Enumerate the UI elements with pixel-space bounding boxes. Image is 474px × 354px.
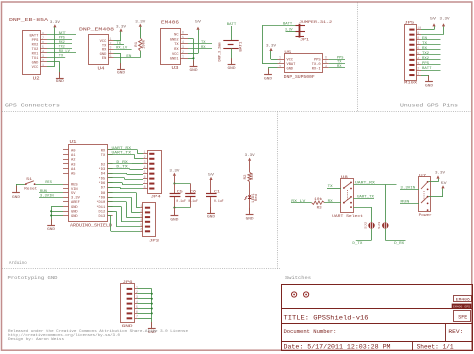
svg-text:Arduino: Arduino xyxy=(9,260,27,266)
svg-text:3.3V: 3.3V xyxy=(116,25,127,29)
svg-text:U8: U8 xyxy=(341,176,349,180)
resistor R3 10k xyxy=(312,197,325,211)
svg-text:0.1uF: 0.1uF xyxy=(188,199,198,203)
svg-text:8: 8 xyxy=(417,36,419,40)
svg-text:RUN: RUN xyxy=(40,190,47,194)
svg-text:VBAT: VBAT xyxy=(287,63,297,67)
JP6 pin stubs and pin numbers xyxy=(135,285,138,318)
svg-text:PPS: PPS xyxy=(422,62,429,66)
svg-text:*D9: *D9 xyxy=(99,196,106,201)
svg-text:GND: GND xyxy=(246,216,254,220)
mounting hole symbol 1 xyxy=(292,292,297,297)
wire U1 D5 to JP4 pin 6 xyxy=(108,178,143,180)
wire U7 to 3.3V supply xyxy=(429,179,439,182)
wire S1 to ground xyxy=(16,184,25,191)
svg-text:*D6: *D6 xyxy=(99,181,106,186)
svg-text:3: 3 xyxy=(417,61,419,65)
wire RX2 from JP5 pin 4 xyxy=(421,57,441,61)
svg-text:D_RX: D_RX xyxy=(116,161,128,165)
wire D_TX from U1 D3 to JP4 pin 4 xyxy=(108,166,143,170)
section label Prototyping GND xyxy=(8,275,58,281)
svg-text:GND: GND xyxy=(228,66,236,70)
wire RUN into U7 xyxy=(400,201,419,205)
svg-text:330: 330 xyxy=(251,173,255,180)
wire TX from U5 xyxy=(329,61,345,65)
license text xyxy=(8,329,189,342)
svg-text:Switches: Switches xyxy=(285,275,311,281)
svg-text:1: 1 xyxy=(182,55,184,59)
svg-text:7: 7 xyxy=(144,180,146,184)
svg-text:GND: GND xyxy=(71,206,78,210)
svg-text:RES: RES xyxy=(45,181,52,185)
ground below U2 xyxy=(56,72,64,83)
wire U5 GND to ground xyxy=(268,68,278,75)
svg-text:RX2: RX2 xyxy=(32,43,39,47)
svg-text:DNP_EB-85A: DNP_EB-85A xyxy=(9,19,49,23)
svg-text:8: 8 xyxy=(42,31,44,35)
U5 pin stubs and pin numbers xyxy=(278,56,329,69)
wire PPS from U2 pin 7 xyxy=(47,37,72,41)
wire 3.3VIN into U7 xyxy=(400,186,419,190)
svg-text:5V: 5V xyxy=(71,192,76,196)
wire 3.3V net label at JP1 pin 2 xyxy=(285,28,296,32)
svg-text:TX: TX xyxy=(101,154,106,158)
svg-text:BAT1: BAT1 xyxy=(240,42,244,52)
svg-text:*D11: *D11 xyxy=(96,205,106,210)
JP3 pin stubs and pin numbers xyxy=(140,204,143,232)
wire U1 D8 to JP3 pin 1 xyxy=(108,193,141,208)
svg-text:6: 6 xyxy=(182,30,184,34)
svg-text:D4: D4 xyxy=(101,173,106,177)
svg-text:GND: GND xyxy=(117,71,125,75)
wire U7 to 5V supply xyxy=(429,188,444,196)
svg-text:DNP_3.2mm: DNP_3.2mm xyxy=(218,43,222,62)
svg-text:NC: NC xyxy=(174,33,179,37)
3.3V supply at C5/C6 xyxy=(169,169,180,183)
svg-text:TX1: TX1 xyxy=(32,57,39,61)
svg-text:GND1: GND1 xyxy=(170,58,180,62)
svg-text:TX2: TX2 xyxy=(422,52,429,56)
header JP5 (unused GPS pins, M10X) xyxy=(404,21,418,85)
svg-text:JP3: JP3 xyxy=(149,240,160,244)
svg-text:Sheet: 1/1: Sheet: 1/1 xyxy=(417,344,454,351)
ground below battery xyxy=(228,58,236,70)
svg-text:C5: C5 xyxy=(177,191,183,195)
svg-text:U2: U2 xyxy=(33,77,41,81)
svg-text:U1: U1 xyxy=(70,141,78,145)
svg-text:BATT: BATT xyxy=(227,23,237,27)
wire C1 to ground xyxy=(210,197,212,213)
svg-text:U4: U4 xyxy=(98,67,106,71)
wire RX2 from U2 pin 6 xyxy=(47,41,72,45)
3.3V supply at U2 VCC xyxy=(47,21,61,66)
svg-text:Design by: Aaron Weiss: Design by: Aaron Weiss xyxy=(8,337,64,342)
svg-text:TX2: TX2 xyxy=(59,46,65,50)
5V supply at JP5 xyxy=(430,18,437,27)
svg-text:AREF: AREF xyxy=(71,201,80,205)
svg-text:D_TX: D_TX xyxy=(352,242,363,246)
svg-text:1: 1 xyxy=(144,150,146,154)
header JP6 (prototyping GND) xyxy=(121,281,135,329)
svg-text:GND: GND xyxy=(190,68,198,72)
wire JP5 pin 10 to 5V xyxy=(421,26,435,29)
GPS connector U2 (DNP_EB-85A) xyxy=(9,19,49,81)
5V supply at U7 xyxy=(441,182,448,188)
wire JP5 pin 9 to 3.3V xyxy=(421,26,444,34)
svg-text:5: 5 xyxy=(325,60,327,64)
svg-text:DNP_EM408: DNP_EM408 xyxy=(79,28,115,32)
svg-text:A5: A5 xyxy=(71,173,75,177)
svg-text:Power: Power xyxy=(419,213,433,218)
svg-text:100k: 100k xyxy=(142,40,147,49)
svg-text:U7: U7 xyxy=(419,174,427,178)
wire RX_LV from U4 xyxy=(114,46,132,50)
capacitor C6 0.1uF xyxy=(185,191,198,203)
wire TX from U4 xyxy=(114,42,125,46)
wire 3.3V to C5 and C6 tops xyxy=(173,183,190,194)
sheet text xyxy=(417,344,454,351)
svg-text:A4: A4 xyxy=(71,168,76,172)
svg-text:EN: EN xyxy=(422,37,427,41)
ground below JP5 xyxy=(425,76,433,88)
date text xyxy=(284,344,391,351)
svg-text:GND: GND xyxy=(122,325,134,329)
section boundary GPS Connectors / Unused GPS Pins (dotted) xyxy=(357,3,359,112)
svg-text:2: 2 xyxy=(182,50,184,54)
svg-text:GND: GND xyxy=(264,76,272,80)
svg-text:*D3: *D3 xyxy=(99,167,106,172)
GPS connector U4 (DNP_EM408) xyxy=(79,28,115,71)
section label GPS Connectors xyxy=(5,103,60,109)
svg-text:4: 4 xyxy=(182,40,184,44)
svg-text:3: 3 xyxy=(279,64,281,68)
3.3V supply at U4 VCC xyxy=(114,25,127,40)
U3 pin stubs and pin numbers xyxy=(180,30,188,58)
svg-text:5: 5 xyxy=(110,54,112,58)
svg-text:5: 5 xyxy=(144,170,146,174)
svg-text:EN: EN xyxy=(126,55,131,59)
svg-text:*D5: *D5 xyxy=(99,176,106,181)
JP5 pin stubs and pin numbers xyxy=(416,26,421,76)
svg-text:BATT: BATT xyxy=(59,32,67,36)
svg-text:3: 3 xyxy=(182,45,184,49)
solder jumper SJ1 xyxy=(378,222,388,229)
wire EN from U4 to R1 xyxy=(114,51,141,59)
wire RX from JP5 pin 6 xyxy=(421,47,441,51)
header JP4 xyxy=(148,151,162,200)
svg-text:RX2: RX2 xyxy=(422,57,429,61)
svg-text:8: 8 xyxy=(144,185,146,189)
wire BATT to JP1 pin 1 and U5 VBAT xyxy=(262,22,296,63)
U2 pin stubs and pin numbers xyxy=(40,31,47,67)
solder jumper SJ2 xyxy=(364,222,374,229)
svg-text:4: 4 xyxy=(140,218,142,222)
logo box SFE xyxy=(454,311,471,322)
svg-text:GND: GND xyxy=(47,227,55,231)
svg-text:JUMPER-31-2: JUMPER-31-2 xyxy=(299,21,333,25)
wire U1 D10 to JP3 pin 3 xyxy=(108,202,141,218)
header JP3 xyxy=(143,203,160,244)
svg-text:D8: D8 xyxy=(101,192,105,196)
5V supply at C1 xyxy=(208,174,215,194)
capacitor C5 0.1uF xyxy=(170,191,186,203)
svg-text:D7: D7 xyxy=(101,187,105,191)
svg-text:2: 2 xyxy=(279,60,281,64)
svg-text:Prototyping GND: Prototyping GND xyxy=(8,275,58,281)
ground at S1 xyxy=(12,186,20,199)
svg-text:EM406: EM406 xyxy=(161,21,180,25)
svg-text:UART_TX: UART_TX xyxy=(112,151,133,155)
svg-text:0.1uF: 0.1uF xyxy=(214,199,224,203)
svg-text:C6: C6 xyxy=(190,191,196,195)
svg-text:2: 2 xyxy=(144,155,146,159)
svg-text:*D10: *D10 xyxy=(96,200,105,205)
svg-text:6: 6 xyxy=(144,175,146,179)
svg-text:2: 2 xyxy=(417,66,419,70)
GPS connector U3 (EM406) xyxy=(161,21,181,71)
switch U7 (Power) xyxy=(419,174,433,218)
svg-text:EN: EN xyxy=(102,57,106,61)
ground below LED1 xyxy=(246,208,254,221)
svg-text:A2: A2 xyxy=(71,159,75,163)
wire TX from U2 pin 3 xyxy=(47,55,65,59)
svg-text:RUN: RUN xyxy=(400,201,409,205)
svg-text:RX2: RX2 xyxy=(59,41,65,45)
svg-text:9: 9 xyxy=(417,31,419,35)
Arduino shield U1 (ARDUINO_SHIELD) xyxy=(69,141,113,229)
wire R2 to LED1 xyxy=(249,182,251,195)
svg-text:3.3V: 3.3V xyxy=(266,44,277,48)
wire C5/C6 bottoms to ground xyxy=(173,197,190,215)
wire RX from U5 xyxy=(329,65,345,69)
svg-text:ARDUINO_SHIELD: ARDUINO_SHIELD xyxy=(70,225,113,229)
wire TX into U8 xyxy=(327,185,341,189)
svg-text:EM406 GPS: EM406 GPS xyxy=(453,305,470,308)
logo box EM406 GPS (filled) xyxy=(452,304,472,309)
svg-text:UART Select: UART Select xyxy=(332,214,363,219)
svg-text:A3: A3 xyxy=(71,163,75,167)
svg-text:BATT: BATT xyxy=(29,34,39,38)
ground below C1 xyxy=(207,207,215,219)
svg-text:VCC: VCC xyxy=(172,53,179,57)
wire UART_RX from U8 to SJ1 xyxy=(354,182,397,223)
svg-text:3.3V: 3.3V xyxy=(71,197,81,201)
svg-text:D2: D2 xyxy=(101,163,105,167)
svg-text:GND: GND xyxy=(170,217,178,221)
wire U1 D4 to JP4 pin 5 xyxy=(108,173,143,174)
svg-text:7: 7 xyxy=(42,36,44,40)
svg-text:4: 4 xyxy=(144,165,146,169)
ground below JP6 bus xyxy=(148,322,156,334)
svg-text:GND: GND xyxy=(71,215,78,219)
svg-text:RES: RES xyxy=(71,184,78,188)
svg-text:JP1: JP1 xyxy=(300,39,310,43)
wire battery to ground xyxy=(231,48,233,64)
svg-text:Reset: Reset xyxy=(24,188,37,192)
wire TX from U3 xyxy=(188,41,212,45)
wire LED1 to ground xyxy=(249,199,251,213)
svg-text:5V: 5V xyxy=(441,182,448,186)
svg-text:6: 6 xyxy=(417,46,419,50)
svg-text:GND2: GND2 xyxy=(170,38,179,42)
svg-text:U3: U3 xyxy=(172,67,180,71)
svg-text:TX2: TX2 xyxy=(32,48,39,52)
svg-text:6: 6 xyxy=(140,228,142,232)
svg-text:RX: RX xyxy=(101,149,106,153)
svg-text:Document Number:: Document Number: xyxy=(284,329,337,335)
svg-text:D_RX: D_RX xyxy=(394,242,405,246)
svg-text:GND: GND xyxy=(287,67,294,71)
svg-text:7: 7 xyxy=(417,41,419,45)
svg-text:A0: A0 xyxy=(71,149,75,153)
svg-text:R1: R1 xyxy=(135,42,139,47)
wire TX2 from JP5 pin 5 xyxy=(421,52,441,56)
resistor R2 330 xyxy=(244,172,255,182)
svg-text:3.3V: 3.3V xyxy=(50,21,61,25)
svg-text:3.3V: 3.3V xyxy=(245,154,256,158)
svg-text:U5: U5 xyxy=(284,51,292,55)
svg-text:3.3V: 3.3V xyxy=(435,171,446,175)
wire UART_TX from U8 xyxy=(354,196,375,200)
wire JP5 pin 1 to ground xyxy=(421,75,429,81)
svg-text:JP6: JP6 xyxy=(123,281,134,285)
wire RX from U3 xyxy=(188,46,212,50)
wire BATT to battery xyxy=(227,23,237,40)
svg-text:3: 3 xyxy=(140,214,142,218)
JP4 pin stubs and pin numbers xyxy=(143,150,148,189)
wire U2 GND to ground xyxy=(47,62,60,78)
section label Unused GPS Pins xyxy=(400,103,458,109)
wire BATT from JP5 pin 2 xyxy=(421,67,441,71)
wire PPS from U5 xyxy=(329,57,345,61)
svg-text:RX_LV: RX_LV xyxy=(291,200,306,204)
svg-text:GND: GND xyxy=(56,79,64,83)
wire U1 D13 to JP3 pin 6 xyxy=(108,216,141,232)
svg-text:4: 4 xyxy=(42,49,44,53)
svg-text:5: 5 xyxy=(417,51,419,55)
svg-text:1: 1 xyxy=(140,204,142,208)
document number label xyxy=(284,329,337,335)
svg-text:S1: S1 xyxy=(26,178,33,182)
ground below U1 xyxy=(47,219,55,231)
svg-text:GND: GND xyxy=(425,83,433,87)
svg-text:SJ1: SJ1 xyxy=(378,222,381,229)
wire EN from JP5 pin 8 xyxy=(421,37,441,41)
svg-text:10: 10 xyxy=(417,26,421,30)
svg-text:5: 5 xyxy=(42,45,44,49)
svg-text:3.3VIN: 3.3VIN xyxy=(40,194,54,198)
svg-text:D_TX: D_TX xyxy=(116,166,128,170)
battery BAT1 (DNP_3.2mm) xyxy=(218,41,243,62)
title text xyxy=(284,314,369,321)
jumper JP1 (JUMPER-31-2) xyxy=(296,21,333,42)
wire U1 GND pins to ground xyxy=(50,207,63,225)
svg-text:3: 3 xyxy=(42,54,44,58)
wire RUN to U1 5V pin xyxy=(39,190,63,194)
svg-text:PPS: PPS xyxy=(59,37,65,41)
svg-text:3.3V: 3.3V xyxy=(169,169,180,173)
U4 pin stubs and pin numbers xyxy=(108,37,114,58)
mounting hole symbol 2 xyxy=(304,292,309,297)
svg-text:JP4: JP4 xyxy=(151,196,162,200)
LED LED1 (Red) xyxy=(245,193,258,202)
wire D_RX from U1 D2 to JP4 pin 3 xyxy=(108,161,143,165)
svg-text:1: 1 xyxy=(417,71,419,75)
REV label xyxy=(448,329,463,335)
ground below C5 xyxy=(170,210,178,222)
wire U1 D9 to JP3 pin 2 xyxy=(108,197,141,212)
svg-text:3.3V: 3.3V xyxy=(440,18,451,22)
wire UART_RX from U1 RX to JP4 pin 1 xyxy=(108,147,143,154)
wire U4 GND to ground xyxy=(114,54,122,69)
section label Arduino xyxy=(9,260,27,266)
svg-text:5V: 5V xyxy=(430,18,437,22)
svg-text:1: 1 xyxy=(42,63,44,67)
svg-text:RX1: RX1 xyxy=(32,52,39,56)
section label Switches xyxy=(285,275,311,281)
section boundary Arduino / Prototyping GND (dotted) xyxy=(2,268,280,270)
svg-text:UART_TX: UART_TX xyxy=(357,196,375,200)
svg-text:5: 5 xyxy=(140,223,142,227)
svg-text:RX_LV: RX_LV xyxy=(59,50,71,54)
GPS module U5 (DNP_SUP500F) xyxy=(284,51,323,80)
3.3V supply at R2 xyxy=(245,154,256,172)
svg-text:5V: 5V xyxy=(195,21,202,25)
svg-text:Date: 5/17/2011 12:03:28 PM: Date: 5/17/2011 12:03:28 PM xyxy=(284,344,391,351)
3.3V supply at JP5 xyxy=(440,18,451,27)
3.3V supply at U5 VCC xyxy=(266,44,278,59)
wire U1 D12 to JP3 pin 5 xyxy=(108,211,141,226)
3.3V supply at U7 xyxy=(435,171,446,178)
svg-text:GND: GND xyxy=(12,195,20,199)
resistor R1 100k (EN pull-up) xyxy=(135,38,147,51)
svg-text:UART_RX: UART_RX xyxy=(112,147,133,151)
svg-text:6: 6 xyxy=(42,40,44,44)
svg-text:GND: GND xyxy=(207,215,215,219)
svg-text:2: 2 xyxy=(42,58,44,62)
switch S1 (Reset) xyxy=(24,178,37,191)
svg-text:REV:: REV: xyxy=(448,329,463,335)
wire BATT from U2 pin 8 xyxy=(47,32,76,36)
svg-text:3.3VIN: 3.3VIN xyxy=(400,186,415,190)
wire RX_LV from U2 pin 4 xyxy=(47,50,76,54)
svg-text:0.1uF: 0.1uF xyxy=(176,199,186,203)
svg-text:M10X: M10X xyxy=(404,82,418,86)
svg-text:RX-I: RX-I xyxy=(312,67,321,71)
ground below U3 xyxy=(190,60,198,72)
svg-text:TITLE: GPSShield-v16: TITLE: GPSShield-v16 xyxy=(284,314,369,321)
section boundary Arduino / Switches (dotted) xyxy=(277,112,279,269)
svg-text:GPS Connectors: GPS Connectors xyxy=(5,103,60,109)
wire 3.3VIN to U1 3.3V pin xyxy=(39,194,63,198)
wire D_RX from SJ1 xyxy=(385,229,405,246)
svg-text:4: 4 xyxy=(325,64,327,68)
svg-text:TX-0: TX-0 xyxy=(312,63,321,67)
svg-text:4: 4 xyxy=(417,56,419,60)
5V supply at U3 VCC xyxy=(188,21,202,54)
svg-text:GND: GND xyxy=(32,61,39,65)
wire JP6 pins to ground bus xyxy=(137,289,152,328)
logo box EM406 xyxy=(454,296,472,303)
svg-text:3.3V: 3.3V xyxy=(135,20,146,24)
3.3V supply at R1 xyxy=(135,20,146,38)
svg-text:SJ2: SJ2 xyxy=(364,222,367,229)
svg-text:5: 5 xyxy=(182,35,184,39)
svg-text:R3: R3 xyxy=(317,206,322,210)
capacitor C1 0.1uF xyxy=(206,191,224,203)
svg-text:JP5: JP5 xyxy=(404,21,415,25)
svg-text:A1: A1 xyxy=(71,154,76,158)
